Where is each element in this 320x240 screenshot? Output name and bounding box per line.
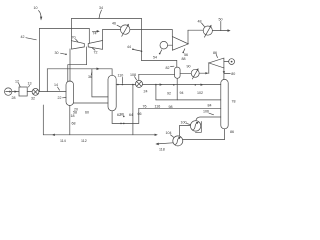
svg-text:24: 24 — [144, 90, 148, 94]
wire lower header to col3 — [156, 99, 221, 101]
svg-text:58: 58 — [73, 111, 77, 115]
wire drop 36 to col2 upper feed — [92, 69, 108, 97]
label 86 — [213, 51, 218, 58]
exchanger box 12 — [19, 87, 27, 96]
wire interstage arrow — [92, 30, 100, 33]
wire down into col1 top — [67, 65, 69, 82]
label 104 — [166, 131, 174, 137]
pump1 casing loop — [195, 122, 201, 133]
svg-text:74: 74 — [93, 31, 97, 35]
svg-text:88: 88 — [182, 57, 186, 61]
column C2 — [108, 75, 116, 111]
svg-text:72: 72 — [94, 50, 98, 54]
svg-text:112: 112 — [81, 139, 87, 143]
svg-text:42: 42 — [21, 35, 25, 39]
wire pump2 to pump1 link — [180, 126, 191, 137]
wire circle to triangle — [168, 44, 173, 46]
svg-text:80: 80 — [231, 72, 235, 76]
pump P1 — [190, 121, 200, 131]
cooler 90 — [191, 68, 199, 79]
wire into col2 top — [111, 69, 113, 76]
arrow on bottom header right — [155, 134, 158, 136]
svg-text:56: 56 — [184, 53, 188, 57]
arrow on main line 2 — [160, 83, 163, 85]
svg-text:48: 48 — [198, 19, 202, 23]
svg-text:82: 82 — [166, 66, 170, 70]
svg-text:14: 14 — [54, 83, 58, 87]
label 110 — [118, 74, 124, 84]
wire vertical V2 recycle — [141, 19, 143, 61]
expander T1 circle 52 — [160, 41, 168, 49]
valve 24 circle X — [136, 80, 143, 87]
svg-text:76: 76 — [143, 104, 147, 108]
wire drum overhead to cooler 90 — [180, 72, 191, 74]
label 46 — [112, 22, 121, 28]
svg-text:32: 32 — [31, 96, 35, 100]
label 70 — [72, 36, 79, 42]
label 14 — [54, 83, 60, 90]
arrow on header 36 — [97, 68, 100, 71]
label 100 — [181, 120, 191, 124]
wire intercool horizontal — [68, 64, 87, 66]
svg-text:44: 44 — [127, 45, 131, 49]
column C1 — [66, 81, 74, 106]
label 36 — [88, 72, 92, 79]
svg-text:46: 46 — [112, 22, 116, 26]
wire pump2 product out — [155, 143, 173, 146]
label 56 with dot — [182, 49, 188, 57]
svg-text:102: 102 — [197, 91, 203, 95]
wire bottom product header — [43, 134, 157, 136]
svg-text:70: 70 — [72, 36, 76, 40]
svg-text:86: 86 — [230, 130, 234, 134]
wire drum bottoms — [176, 78, 178, 100]
wire col3 bottoms — [183, 129, 225, 140]
wire line 42 vertical — [38, 29, 40, 92]
svg-text:22: 22 — [58, 96, 62, 100]
wire col1 bottoms down — [69, 106, 71, 135]
wire product out 50 — [212, 29, 230, 32]
wire stage2 discharge riser — [102, 30, 104, 41]
svg-text:92: 92 — [167, 92, 171, 96]
wire col2 bottoms right — [112, 122, 139, 124]
label 106 — [203, 110, 214, 115]
svg-text:54: 54 — [153, 56, 157, 60]
label 48 — [198, 19, 205, 26]
cooler 48 — [203, 25, 212, 37]
expander T1 triangle — [172, 37, 188, 51]
wire T2 discharge into col3 top — [223, 68, 225, 80]
wire col1 side to col2 — [74, 102, 108, 104]
wire header left drop — [46, 69, 48, 92]
label 42 — [21, 35, 37, 40]
svg-text:106: 106 — [203, 110, 209, 114]
wire bottom header riser left — [42, 105, 44, 135]
wire line 42 horizontal — [39, 28, 89, 30]
svg-text:116: 116 — [155, 104, 161, 108]
wire col2 overhead right line — [116, 84, 135, 86]
label 108 — [130, 73, 137, 80]
junction dot on V2 — [141, 51, 143, 53]
label 12 — [15, 79, 20, 86]
svg-text:108: 108 — [130, 73, 136, 77]
svg-text:78: 78 — [232, 99, 236, 103]
junction dots bottoms — [120, 123, 124, 125]
svg-text:66: 66 — [138, 112, 142, 116]
feed source S1 — [5, 88, 12, 95]
svg-text:36: 36 — [88, 75, 92, 79]
figure pointer 10 — [34, 6, 43, 21]
label 96 with dot — [120, 112, 125, 117]
svg-text:28: 28 — [12, 96, 16, 100]
label 44 with dot — [127, 45, 141, 51]
junction dot draw — [132, 84, 134, 86]
compressor T2 triangle — [209, 58, 224, 68]
svg-text:90: 90 — [187, 64, 191, 68]
label 72 — [93, 48, 98, 54]
label 34 — [99, 6, 103, 18]
svg-text:34: 34 — [99, 6, 103, 10]
label 54 with dot — [153, 50, 162, 60]
wire liquid draw from main line down — [132, 85, 134, 135]
wire main line to column C3 — [143, 84, 221, 86]
wire to cooler 48 — [188, 29, 203, 31]
compressor K1 bowtie stage 1 — [72, 41, 85, 49]
cooler 46 — [121, 24, 130, 37]
flash drum 82 — [175, 67, 181, 78]
wire stage2 suction from line 42 — [88, 29, 90, 44]
wire col2 bottoms down — [111, 111, 113, 124]
svg-text:10: 10 — [34, 6, 38, 10]
svg-text:60: 60 — [85, 111, 89, 115]
svg-text:100: 100 — [181, 120, 187, 124]
wire cooler to compressor T2 — [199, 72, 209, 74]
label 13 — [28, 82, 32, 87]
svg-text:50: 50 — [219, 18, 223, 22]
svg-text:13: 13 — [28, 82, 32, 86]
arrow on bottom header left — [52, 134, 55, 136]
wire bottoms riser — [138, 108, 140, 123]
junction dots col2 line — [117, 84, 123, 86]
motor M circle — [224, 59, 235, 65]
wire box to valve — [27, 91, 32, 93]
label 30 with dot — [55, 51, 67, 55]
valve V0 circle X — [32, 89, 39, 96]
svg-text:110: 110 — [118, 74, 124, 78]
wire pump1 discharge to col3 — [196, 117, 221, 121]
pump P2 — [173, 136, 183, 146]
wire expander inlet drop — [171, 30, 173, 37]
wire bypass to drum left — [139, 73, 175, 75]
wire source to box — [12, 90, 19, 92]
wire riser into compressor stage1 — [71, 19, 73, 41]
svg-text:30: 30 — [55, 51, 59, 55]
wire valve24 bypass up — [138, 74, 140, 80]
wire stage1 discharge loop down — [86, 47, 88, 65]
wire bottoms feed to col3 — [139, 107, 221, 109]
wire discharge to cooler 46 — [103, 29, 121, 31]
wire cooler 46 to V2 and expander inlet — [130, 29, 172, 31]
label 50 — [219, 18, 223, 31]
svg-text:118: 118 — [159, 147, 165, 151]
label 82 — [166, 66, 175, 70]
compressor K1 bowtie stage 2 — [88, 41, 102, 50]
svg-text:84: 84 — [208, 103, 212, 107]
arrow on main line — [201, 84, 204, 86]
label 22 — [58, 96, 67, 100]
label 80 stub — [224, 72, 235, 76]
wire top header line 34 — [72, 18, 142, 20]
svg-text:68: 68 — [72, 122, 76, 126]
wire branch down to lower header — [155, 85, 157, 100]
wire overhead header 36 to col2 top — [47, 68, 112, 70]
svg-text:64: 64 — [129, 113, 133, 117]
svg-text:114: 114 — [60, 139, 66, 143]
wire drop into drum top — [176, 61, 178, 68]
wire V2 elbow to drum — [142, 60, 177, 62]
column C3 — [221, 79, 228, 128]
wire expander outlet riser — [187, 30, 189, 44]
wire col1 overhead to stage1 suction — [69, 49, 71, 82]
svg-text:94: 94 — [180, 91, 184, 95]
junction dots main line — [155, 84, 196, 86]
wire feed to column C1 — [39, 91, 66, 93]
wire riser to T2 apex — [208, 63, 210, 73]
